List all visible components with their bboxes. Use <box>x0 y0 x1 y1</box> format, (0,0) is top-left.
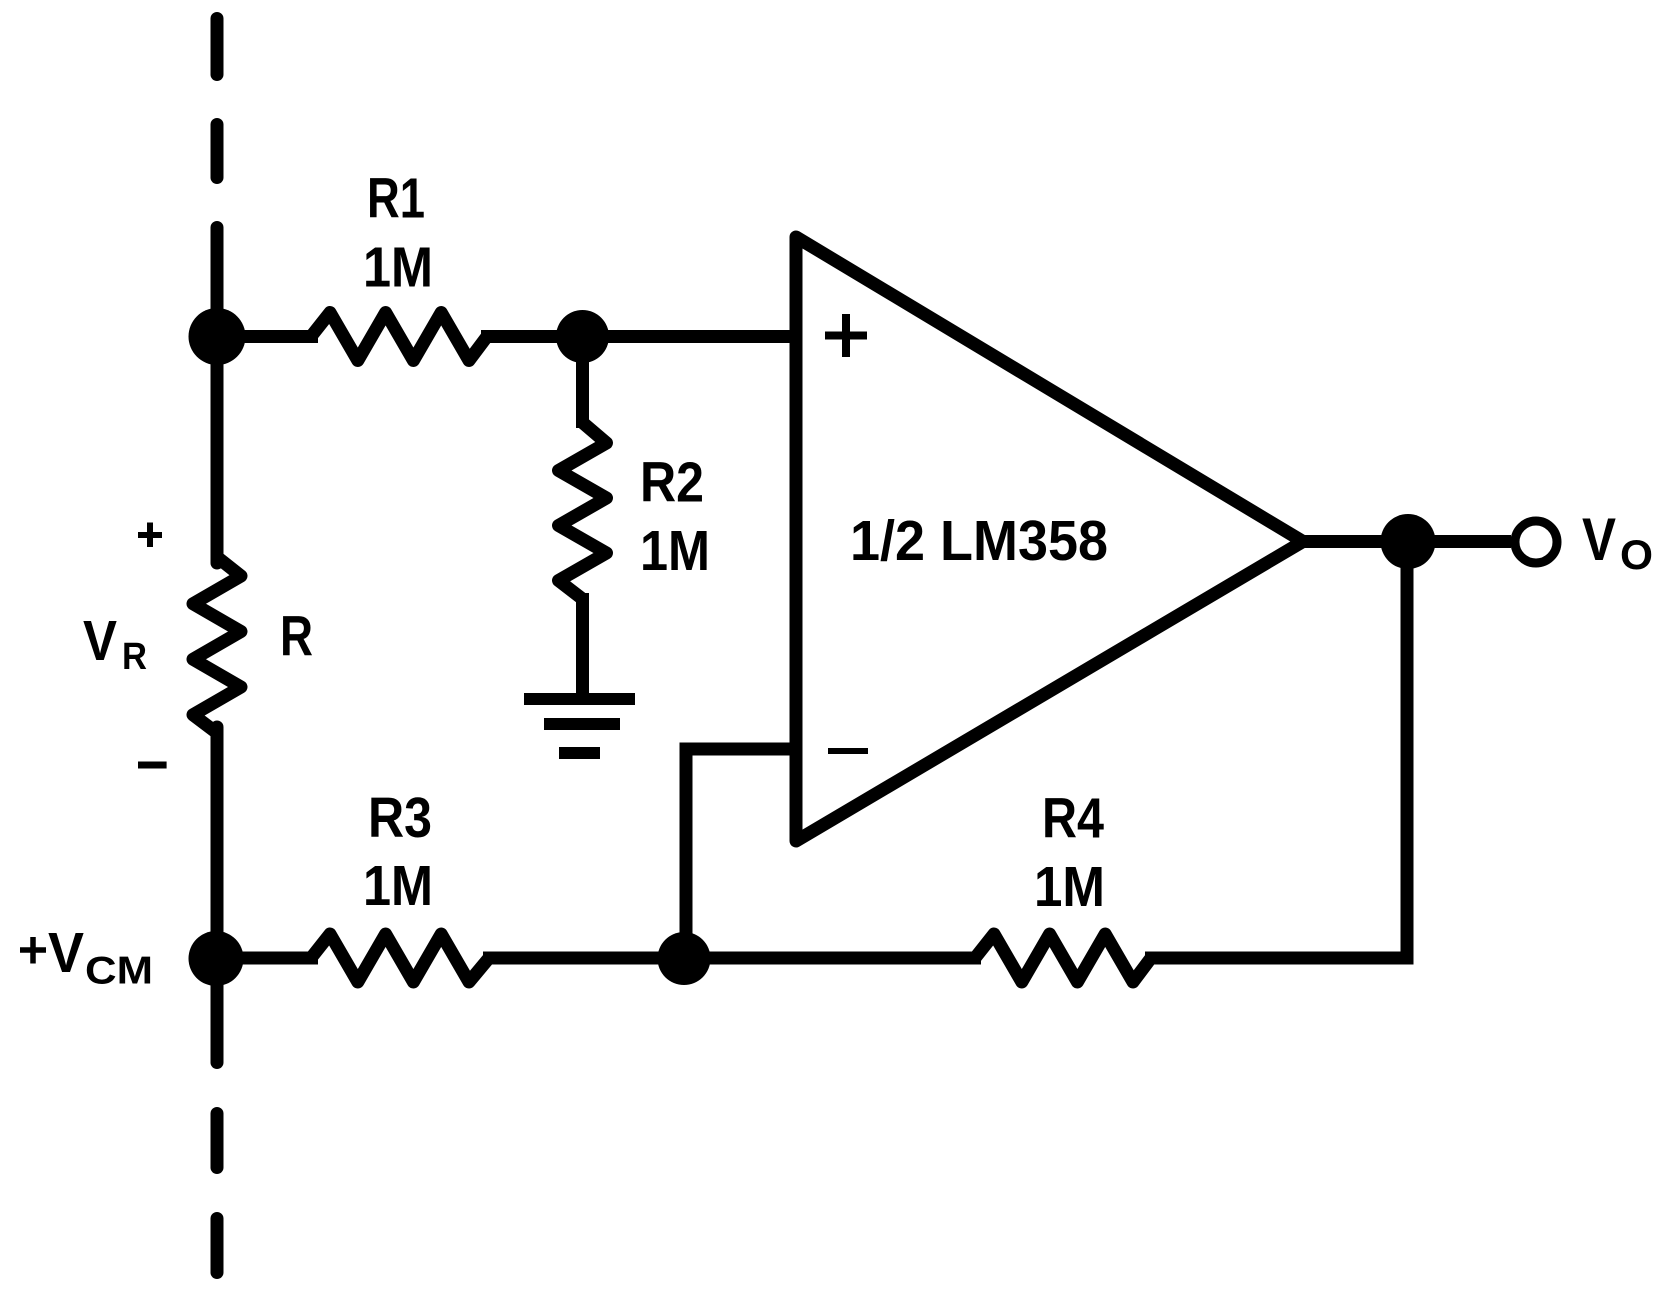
resistor R3 <box>311 934 489 982</box>
wire: node C down to R2 <box>576 337 589 429</box>
wire: node E to R4 <box>684 952 981 965</box>
svg-text:R: R <box>122 636 147 678</box>
resistor R (vertical, source resistance) <box>193 557 241 733</box>
output terminal circle VO <box>1515 521 1557 563</box>
wire: node E up to op-amp inverting input <box>686 749 800 958</box>
label VR plus polarity sign <box>138 523 162 548</box>
svg-text:1M: 1M <box>640 519 710 583</box>
svg-text:1M: 1M <box>363 854 433 918</box>
op-amp plus input marker <box>825 314 867 357</box>
svg-text:1M: 1M <box>363 236 433 300</box>
wire: node A to R1 <box>217 330 318 343</box>
svg-text:R2: R2 <box>640 451 704 515</box>
resistor R1 <box>311 313 487 361</box>
wire: node B to R3 <box>216 952 318 965</box>
node B (rail / R3 junction, +VCM) <box>189 931 244 986</box>
svg-text:R3: R3 <box>368 786 432 850</box>
svg-text:V: V <box>48 921 84 985</box>
wire: left rail dashed segment 2 <box>211 125 224 178</box>
ground bar 2 <box>544 718 620 730</box>
node E (R3 / R4 / feedback junction) <box>658 932 711 985</box>
wire: R3 to node E <box>483 952 684 965</box>
svg-text:R1: R1 <box>367 167 425 231</box>
resistor R4 <box>975 934 1151 982</box>
svg-text:V: V <box>83 609 117 673</box>
wire: op-amp output to terminal <box>1303 535 1511 548</box>
node A (rail / R1 junction) <box>189 308 246 365</box>
svg-text:1/2 LM358: 1/2 LM358 <box>850 509 1108 573</box>
wire: left rail dashed segment 3 <box>211 1114 224 1168</box>
op-amp minus input marker <box>828 748 868 754</box>
wire: left rail solid upper (into node A) <box>211 228 224 564</box>
wire: left rail dashed segment 4 <box>211 1219 224 1273</box>
svg-text:O: O <box>1620 531 1653 578</box>
node C (R1 / R2 / +input junction) <box>556 310 609 363</box>
svg-text:R: R <box>280 605 313 669</box>
node D (output junction) <box>1381 514 1436 569</box>
wire: R2 to ground <box>576 593 589 699</box>
wire: left rail solid lower (R to node B) <box>211 727 224 1063</box>
svg-text:V: V <box>1582 506 1616 573</box>
wire: R1 to op-amp noninverting input (through node C) <box>481 330 796 343</box>
resistor R2 (vertical) <box>559 423 607 600</box>
op-amp U1 triangle (1/2 LM358) <box>796 237 1303 841</box>
svg-text:1M: 1M <box>1034 855 1105 919</box>
wire: feedback from output node down and left along bottom <box>1145 542 1407 959</box>
svg-text:R4: R4 <box>1042 787 1104 851</box>
label VR minus polarity sign <box>138 762 167 769</box>
ground bar 1 <box>524 693 635 705</box>
label +VCM plus sign <box>20 937 46 964</box>
svg-text:CM: CM <box>85 950 153 993</box>
ground bar 3 <box>559 747 600 759</box>
wire: left rail dashed segment top <box>211 19 224 75</box>
